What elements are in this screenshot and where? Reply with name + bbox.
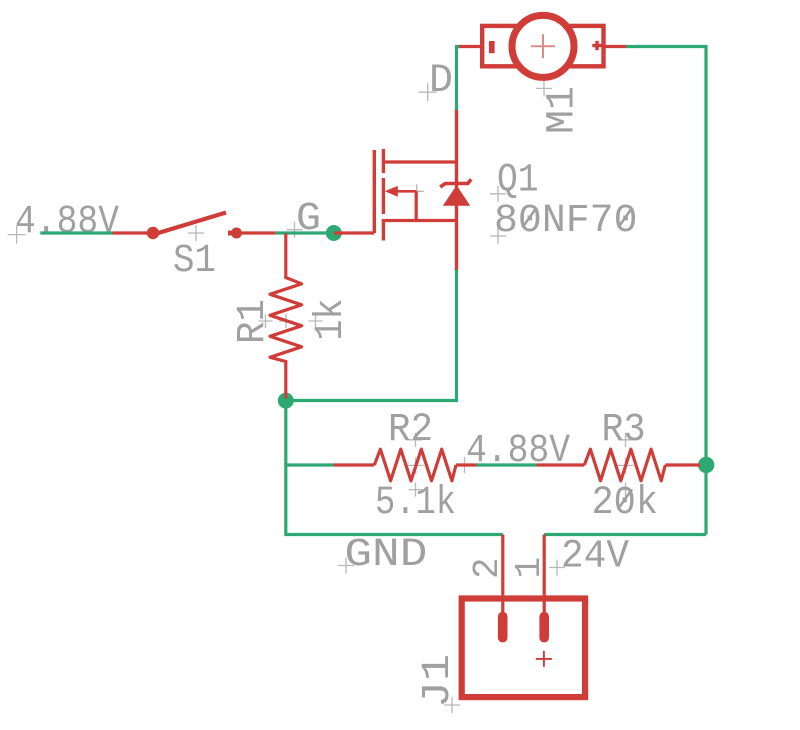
svg-text:1k: 1k (309, 299, 354, 341)
svg-text:GND: GND (344, 533, 427, 578)
svg-text:5.1k: 5.1k (375, 481, 456, 526)
svg-text:80NF70: 80NF70 (494, 199, 638, 244)
svg-text:D: D (429, 59, 453, 104)
svg-text:J1: J1 (416, 654, 461, 708)
svg-text:4.88V: 4.88V (466, 429, 570, 474)
svg-text:M1: M1 (541, 86, 586, 134)
svg-text:4.88V: 4.88V (15, 200, 119, 245)
svg-text:R2: R2 (388, 408, 433, 453)
svg-text:24V: 24V (561, 535, 629, 580)
svg-text:20k: 20k (592, 481, 659, 526)
svg-text:S1: S1 (173, 239, 216, 284)
svg-text:Q1: Q1 (497, 159, 539, 204)
svg-text:G: G (296, 197, 321, 242)
svg-text:R3: R3 (602, 408, 646, 453)
